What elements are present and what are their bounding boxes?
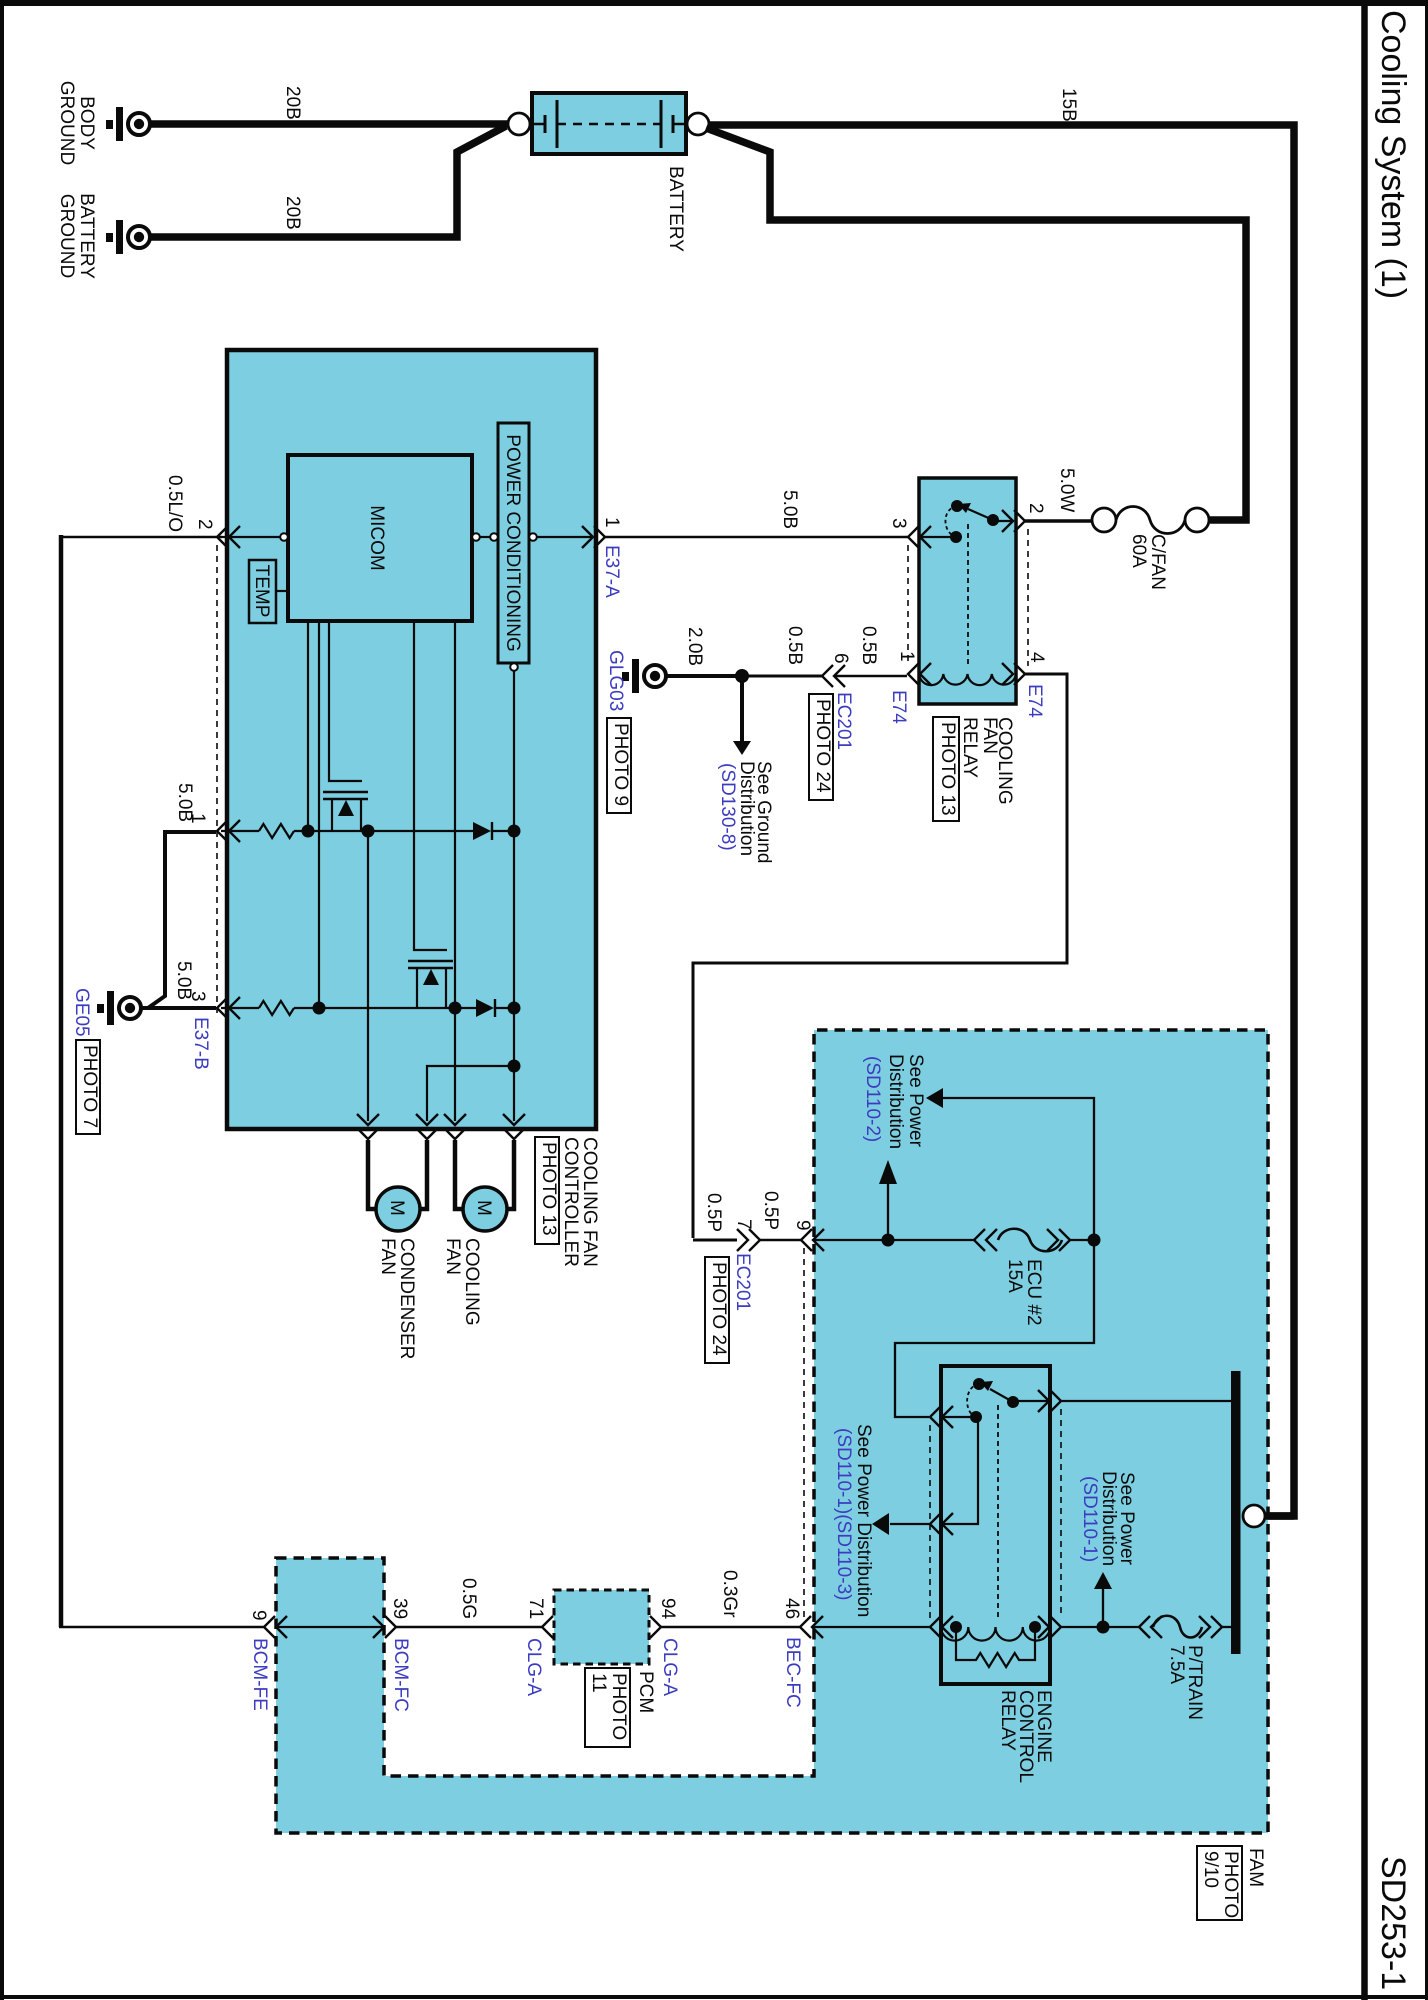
connector arrow EC201 pin 7 bbox=[737, 1229, 760, 1251]
svg-text:46: 46 bbox=[781, 1598, 802, 1619]
svg-text:11: 11 bbox=[588, 1673, 609, 1693]
connector arrow relay pin 4 bbox=[1002, 663, 1025, 685]
connector arrow BCM-FC pin 39 bbox=[373, 1616, 396, 1638]
svg-text:7.5A: 7.5A bbox=[1166, 1645, 1187, 1684]
wire ECU fuse to engine control relay bbox=[895, 1240, 1094, 1417]
svg-text:60A: 60A bbox=[1128, 534, 1149, 568]
svg-text:See Power Distribution: See Power Distribution bbox=[853, 1424, 874, 1617]
svg-text:0.5B: 0.5B bbox=[784, 626, 805, 665]
svg-text:5.0W: 5.0W bbox=[1056, 468, 1077, 512]
ground symbol GE05 bbox=[97, 991, 141, 1025]
transistor Q1 (MOSFET) bbox=[323, 622, 368, 831]
ground symbol BODY GROUND bbox=[106, 107, 150, 141]
svg-text:BCM-FE: BCM-FE bbox=[249, 1638, 270, 1711]
connector arrow EC201 pin 6 bbox=[822, 665, 845, 687]
motor M1 CONDENSER FAN bbox=[376, 1187, 420, 1231]
svg-text:0.5P: 0.5P bbox=[703, 1193, 724, 1232]
node circle POWER CONDITIONING left pin bbox=[490, 533, 498, 541]
label CONDENSER FAN bbox=[377, 1238, 417, 1359]
wire 0.3Gr PCM to BEC-FC bbox=[661, 1626, 800, 1628]
svg-text:POWER CONDITIONING: POWER CONDITIONING bbox=[502, 434, 523, 651]
relay switch contacts bbox=[921, 500, 1014, 664]
fuse P/TRAIN 7.5A bbox=[1139, 1616, 1222, 1638]
wire 20B battery ground to battery bbox=[150, 126, 506, 237]
svg-text:CONDENSER: CONDENSER bbox=[396, 1238, 417, 1359]
controller box COOLING FAN CONTROLLER bbox=[227, 350, 596, 1129]
svg-text:Distribution: Distribution bbox=[885, 1054, 906, 1149]
svg-text:SD253-1: SD253-1 bbox=[1374, 1856, 1412, 1990]
transistor Q2 (MOSFET) bbox=[408, 622, 453, 1008]
label C/FAN 60A bbox=[1128, 534, 1168, 590]
connector arrow CLG-A pin 71 bbox=[542, 1616, 553, 1638]
svg-text:GROUND: GROUND bbox=[56, 194, 77, 278]
svg-text:PHOTO 24: PHOTO 24 bbox=[812, 699, 833, 793]
wire inside BCM bbox=[276, 1626, 384, 1628]
svg-text:9: 9 bbox=[792, 1220, 813, 1231]
connector dashed line ECR right bbox=[1060, 1409, 1062, 1618]
wire EC201-7 row bbox=[693, 1239, 737, 1242]
arrow see power distribution SD110-2 bbox=[879, 1160, 897, 1240]
PHOTO 9/10 box bbox=[1197, 1846, 1242, 1920]
wire motor2 right drop bbox=[513, 1066, 515, 1121]
svg-text:PHOTO 13: PHOTO 13 bbox=[538, 1142, 559, 1236]
connector arrow CLG-A pin 94 bbox=[650, 1616, 661, 1638]
connector dashed line E37 (left of controller) bbox=[216, 545, 218, 1013]
junction dot power distribution branch bbox=[882, 1234, 895, 1247]
connector arrow BCM-FE pin 9 bbox=[264, 1616, 287, 1638]
PHOTO 13 box (controller) bbox=[535, 1137, 559, 1244]
engine control relay box bbox=[941, 1366, 1050, 1684]
svg-text:0.5L/O: 0.5L/O bbox=[164, 475, 185, 532]
svg-text:7: 7 bbox=[733, 1219, 754, 1230]
svg-text:GE05: GE05 bbox=[71, 988, 92, 1037]
connector arrow pin 3 (row 2) bbox=[217, 997, 240, 1019]
junction dot motor feed bbox=[508, 1060, 521, 1073]
connector arrow relay pin 1 bbox=[908, 663, 931, 685]
relay box COOLING FAN RELAY bbox=[919, 478, 1016, 704]
connector arrow relay pin 2 bbox=[1002, 510, 1025, 532]
PHOTO 11 box bbox=[585, 1668, 630, 1747]
wire ECR coil-right to P/TRAIN fuse bbox=[1061, 1626, 1141, 1628]
svg-text:PCM: PCM bbox=[635, 1671, 656, 1713]
svg-text:9: 9 bbox=[248, 1610, 269, 1621]
node circle POWER CONDITIONING bottom pin bbox=[510, 663, 518, 671]
svg-text:20B: 20B bbox=[282, 86, 303, 120]
connector arrow ECR mid-left bbox=[930, 1513, 953, 1535]
svg-text:GROUND: GROUND bbox=[56, 81, 77, 165]
wire 15B battery to powertrain bus bbox=[709, 125, 1294, 1516]
wire POWER CONDITIONING to pin 1 bbox=[537, 536, 592, 538]
fuse C/FAN 60A bbox=[1092, 507, 1209, 534]
resistor R1 (row 1) bbox=[259, 824, 294, 838]
diode D2 (row 2) bbox=[476, 999, 495, 1017]
battery right terminal bbox=[687, 113, 709, 135]
connector dashed line E74 left bbox=[907, 545, 909, 666]
svg-text:BODY: BODY bbox=[76, 96, 97, 150]
label ECU #2 15A bbox=[1004, 1259, 1044, 1326]
svg-text:94: 94 bbox=[657, 1598, 678, 1620]
connector arrow relay pin 3 bbox=[908, 526, 931, 548]
label See Power Distribution (SD110-2) bbox=[862, 1054, 926, 1149]
svg-text:(SD110-1)(SD110-3): (SD110-1)(SD110-3) bbox=[833, 1428, 854, 1600]
svg-text:RELAY: RELAY bbox=[959, 717, 980, 778]
connector arrow BEC-FC pin 46 bbox=[800, 1616, 823, 1638]
wire 0.5G BCM to PCM bbox=[396, 1626, 543, 1628]
connector arrow ECR coil-right bbox=[1038, 1616, 1061, 1638]
svg-text:5.0B: 5.0B bbox=[779, 490, 800, 529]
junction dot row1 diode cathode bbox=[508, 825, 521, 838]
wire 20B body ground to battery bbox=[150, 120, 510, 128]
PCM box bbox=[554, 1590, 649, 1664]
svg-text:See Power: See Power bbox=[905, 1054, 926, 1148]
label COOLING FAN CONTROLLER bbox=[560, 1137, 600, 1267]
engine control relay resistor bbox=[950, 1621, 1041, 1667]
svg-text:0.3Gr: 0.3Gr bbox=[719, 1570, 740, 1618]
svg-text:E37-A: E37-A bbox=[601, 545, 622, 598]
PHOTO 13 box (relay) bbox=[933, 717, 959, 821]
wire left margin to BCM bbox=[59, 1626, 264, 1628]
svg-text:2: 2 bbox=[1025, 503, 1046, 514]
svg-text:15A: 15A bbox=[1004, 1259, 1025, 1293]
arrow see power distribution SD110-1/3 bbox=[872, 1513, 930, 1535]
diode D1 (row 1) bbox=[473, 822, 492, 840]
svg-text:BATTERY: BATTERY bbox=[665, 166, 686, 252]
svg-text:FAN: FAN bbox=[377, 1238, 398, 1275]
svg-text:EC201: EC201 bbox=[732, 1253, 753, 1311]
junction dot row2 motor node bbox=[449, 1002, 462, 1015]
wire ECR to powertrain bus bbox=[1061, 1400, 1231, 1402]
node circle POWER CONDITIONING right pin bbox=[529, 533, 537, 541]
MICOM box bbox=[288, 455, 472, 621]
svg-text:9/10: 9/10 bbox=[1200, 1851, 1221, 1888]
svg-text:C/FAN: C/FAN bbox=[1147, 534, 1168, 590]
wire motor1 right feed jog bbox=[427, 1066, 514, 1121]
label See Ground Distribution (SD130-8) bbox=[717, 761, 774, 863]
svg-text:(SD110-2): (SD110-2) bbox=[862, 1056, 883, 1142]
connector arrow ECR top-right bbox=[1038, 1390, 1061, 1412]
wire fuse to junction bbox=[1070, 1239, 1094, 1241]
svg-text:E74: E74 bbox=[1024, 684, 1045, 718]
connector dashed line E74 right bbox=[1027, 529, 1029, 666]
label BATTERY GROUND bbox=[56, 193, 97, 279]
PHOTO 24 box (EC201 pin7) bbox=[705, 1257, 729, 1363]
junction dot ECU fuse out bbox=[1088, 1234, 1101, 1247]
battery U1 bbox=[530, 93, 688, 154]
wire GE05 ground link bbox=[141, 832, 216, 1008]
svg-text:PHOTO 13: PHOTO 13 bbox=[937, 722, 958, 816]
svg-text:BATTERY: BATTERY bbox=[76, 193, 97, 279]
junction dot ground distribution bbox=[735, 669, 749, 683]
svg-text:(SD130-8): (SD130-8) bbox=[717, 763, 738, 851]
motor M2 COOLING FAN bbox=[463, 1187, 507, 1231]
arrow see ground distribution bbox=[733, 741, 751, 755]
bus terminal circle bbox=[1243, 1505, 1265, 1527]
connector arrow pin 1 (controller right) bbox=[582, 526, 605, 548]
ground symbol BATTERY GROUND bbox=[106, 220, 150, 254]
svg-text:6: 6 bbox=[830, 653, 851, 664]
connector dashed line ECR left bbox=[929, 1425, 931, 1618]
svg-text:GLG03: GLG03 bbox=[605, 650, 626, 711]
svg-text:5.0B: 5.0B bbox=[173, 961, 194, 1000]
wire BEC-FC to ECR coil bbox=[812, 1626, 930, 1628]
svg-text:CLG-A: CLG-A bbox=[659, 1638, 680, 1696]
arrow see power distribution SD110-1 bbox=[1094, 1572, 1112, 1627]
junction dot coil-right bbox=[1097, 1621, 1110, 1634]
POWER CONDITIONING box bbox=[498, 423, 529, 663]
label See Power Distribution (SD110-1) bbox=[1079, 1471, 1137, 1566]
svg-text:COOLING: COOLING bbox=[461, 1238, 482, 1326]
wire MICOM to POWER CONDITIONING bbox=[480, 536, 490, 538]
wire 0.5P to FAM pin 9 bbox=[760, 1239, 801, 1241]
svg-text:BCM-FC: BCM-FC bbox=[390, 1638, 411, 1712]
wire cooling fan right bbox=[505, 1140, 514, 1209]
svg-text:EC201: EC201 bbox=[833, 692, 854, 750]
svg-text:PHOTO: PHOTO bbox=[1220, 1851, 1241, 1918]
wire 0.5B EC201 to E74 pin1 bbox=[834, 675, 907, 678]
node circle MICOM left pin bbox=[280, 533, 288, 541]
svg-text:4: 4 bbox=[1026, 652, 1047, 663]
wire 0.5L/O pin2 to left margin and down bbox=[61, 535, 222, 1627]
wire condenser fan right bbox=[418, 1140, 427, 1209]
label P/TRAIN 7.5A bbox=[1166, 1645, 1205, 1720]
svg-text:0.5B: 0.5B bbox=[858, 626, 879, 665]
svg-text:2.0B: 2.0B bbox=[684, 627, 705, 666]
connector arrow pin 1 (row 1) bbox=[217, 820, 240, 842]
svg-text:PHOTO 24: PHOTO 24 bbox=[708, 1262, 729, 1356]
relay coil bbox=[919, 674, 1016, 685]
svg-text:PHOTO 9: PHOTO 9 bbox=[610, 723, 631, 806]
wire 5.0B controller to relay pin 3 bbox=[605, 536, 908, 538]
ground symbol GLG03 bbox=[622, 659, 666, 693]
svg-text:CONTROLLER: CONTROLLER bbox=[560, 1137, 581, 1267]
svg-text:TEMP: TEMP bbox=[251, 565, 272, 618]
svg-text:20B: 20B bbox=[282, 196, 303, 230]
wire pin2 to MICOM bbox=[222, 536, 280, 538]
wire relay pin4 to EC201-7 bbox=[693, 674, 1067, 1238]
wire battery to C/FAN fuse bbox=[706, 128, 1246, 520]
wire 5.0W relay pin2 to fuse bbox=[1025, 519, 1093, 523]
connector arrow ECR coil-left bbox=[930, 1616, 953, 1638]
arrow see power distribution SD110-2 (left pointing) bbox=[926, 1088, 1094, 1240]
wire FAM pin9 to ECU fuse bbox=[813, 1239, 976, 1241]
svg-text:3: 3 bbox=[888, 518, 909, 529]
svg-text:CLG-A: CLG-A bbox=[523, 1638, 544, 1696]
wire row 2 (pin 3, 5.0B) bbox=[221, 1007, 514, 1009]
svg-text:Distribution: Distribution bbox=[736, 761, 757, 856]
svg-text:FAN: FAN bbox=[979, 717, 1000, 754]
svg-text:71: 71 bbox=[525, 1598, 546, 1619]
junction dot row2 gate node bbox=[313, 1002, 326, 1015]
svg-text:39: 39 bbox=[389, 1598, 410, 1619]
svg-text:15B: 15B bbox=[1058, 88, 1079, 122]
battery left terminal bbox=[508, 113, 530, 135]
svg-text:FAN: FAN bbox=[442, 1238, 463, 1275]
PHOTO 24 box (EC201) bbox=[809, 694, 833, 800]
node circle MICOM right pin bbox=[472, 533, 480, 541]
wire condenser fan left bbox=[368, 1140, 378, 1209]
svg-text:COOLING FAN: COOLING FAN bbox=[579, 1137, 600, 1267]
svg-text:PHOTO 7: PHOTO 7 bbox=[79, 1045, 100, 1128]
TEMP box bbox=[249, 560, 276, 623]
wire cooling fan left bbox=[455, 1140, 465, 1209]
resistor R2 (row 2) bbox=[259, 1001, 294, 1015]
svg-text:M: M bbox=[473, 1200, 494, 1216]
svg-text:RELAY: RELAY bbox=[997, 1690, 1018, 1751]
svg-text:0.5G: 0.5G bbox=[458, 1578, 479, 1619]
svg-text:E74: E74 bbox=[888, 690, 909, 724]
connector arrow ECR top-left bbox=[930, 1406, 953, 1428]
controller bottom connector arrows (4) bbox=[357, 1114, 525, 1139]
engine control relay switch bbox=[941, 1378, 1048, 1618]
connector dashed line EC201/BEC bbox=[803, 1248, 805, 1618]
label COOLING FAN bbox=[442, 1238, 482, 1326]
wire fuse to bus bbox=[1222, 1626, 1231, 1628]
wire 0.5B junction to EC201 bbox=[742, 675, 822, 678]
svg-text:BEC-FC: BEC-FC bbox=[782, 1637, 803, 1708]
label COOLING FAN RELAY bbox=[959, 717, 1015, 805]
wire 15B stub to bus bbox=[1243, 1512, 1294, 1520]
FAM and BCM dashed harness region bbox=[276, 1030, 1268, 1833]
label See Power Distribution (SD110-1)(SD110-3) bbox=[833, 1424, 874, 1617]
junction dot row2 diode cathode bbox=[508, 1002, 521, 1015]
connector arrow pin 2 (controller left) bbox=[217, 526, 240, 548]
wire motor1 left drop bbox=[367, 831, 369, 1121]
svg-text:1: 1 bbox=[896, 651, 917, 662]
wire power conditioning output vertical bbox=[513, 671, 515, 1066]
junction dot row1 motor node bbox=[362, 825, 375, 838]
connector arrow FAM pin 9 bbox=[801, 1229, 824, 1251]
engine control relay coil bbox=[941, 1627, 1050, 1641]
wire MICOM output lines bbox=[308, 622, 455, 1121]
wire to ground distribution arrow bbox=[740, 676, 744, 741]
PHOTO 7 box bbox=[76, 1040, 100, 1134]
powertrain bus bar bbox=[1231, 1371, 1241, 1654]
wire row 1 (pin 1, 5.0B) bbox=[221, 830, 514, 832]
fuse ECU #2 15A bbox=[974, 1229, 1070, 1252]
wire TEMP to MICOM bbox=[276, 590, 288, 592]
wire 2.0B ground to junction bbox=[666, 674, 742, 678]
svg-text:FAM: FAM bbox=[1245, 1848, 1266, 1887]
svg-text:(SD110-1): (SD110-1) bbox=[1079, 1476, 1100, 1562]
svg-text:E37-B: E37-B bbox=[190, 1017, 211, 1070]
svg-text:M: M bbox=[386, 1200, 407, 1216]
label BODY GROUND bbox=[56, 81, 97, 165]
svg-text:5.0B: 5.0B bbox=[174, 783, 195, 822]
PHOTO 9 box bbox=[607, 718, 631, 813]
label ENGINE CONTROL RELAY bbox=[997, 1690, 1054, 1783]
svg-text:PHOTO: PHOTO bbox=[608, 1673, 629, 1740]
junction dot row1 gate node bbox=[302, 825, 315, 838]
svg-text:Cooling System (1): Cooling System (1) bbox=[1374, 10, 1412, 299]
svg-text:Distribution: Distribution bbox=[1098, 1471, 1119, 1566]
svg-text:0.5P: 0.5P bbox=[760, 1191, 781, 1230]
svg-text:MICOM: MICOM bbox=[366, 505, 387, 570]
svg-text:1: 1 bbox=[601, 517, 622, 528]
svg-text:ECU #2: ECU #2 bbox=[1023, 1259, 1044, 1326]
svg-text:2: 2 bbox=[194, 519, 215, 530]
